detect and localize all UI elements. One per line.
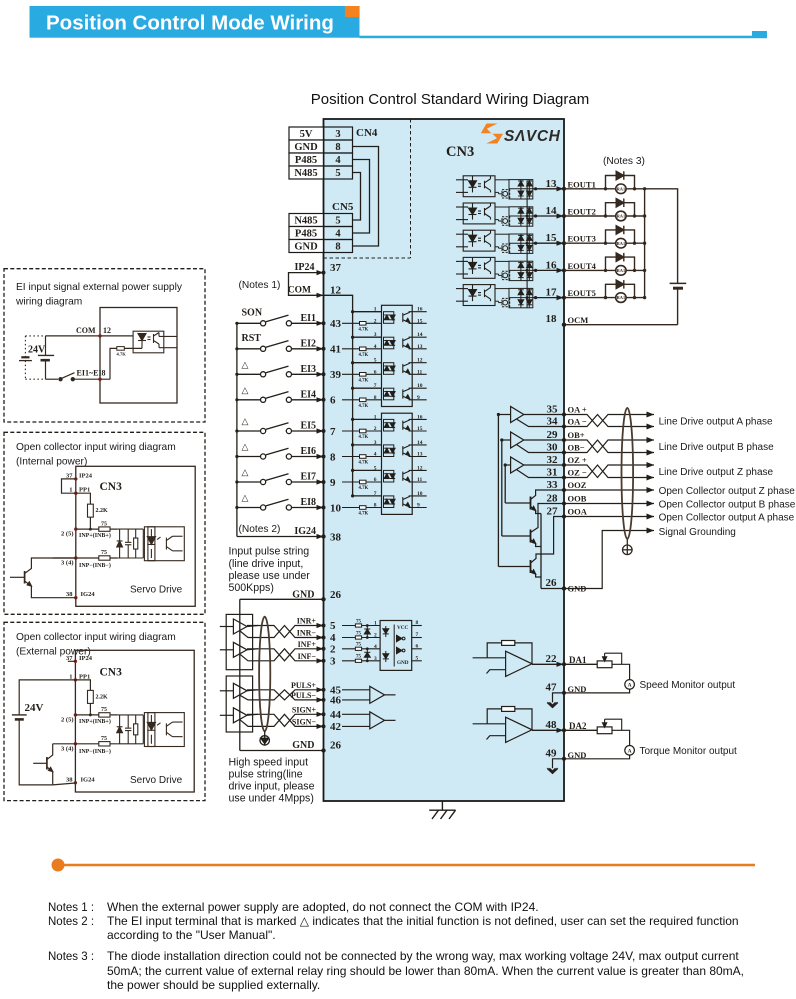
wire EOUT2 output wire — [533, 215, 564, 217]
svg-text:9: 9 — [417, 503, 420, 509]
junction EOUT1 relay left node — [604, 187, 607, 190]
servo drive CN3 block — [324, 119, 565, 801]
svg-text:26: 26 — [330, 740, 342, 752]
wire EI8 opto out bottom — [409, 507, 427, 509]
svg-text:4.7K: 4.7K — [359, 353, 369, 358]
svg-text:3: 3 — [374, 656, 377, 662]
svg-text:5: 5 — [374, 358, 377, 364]
junction EI2 pin dot — [322, 347, 326, 351]
junction GND top pin dot — [321, 597, 325, 601]
wire PULS- internal wire — [342, 699, 370, 701]
svg-text:17: 17 — [546, 287, 558, 299]
svg-text:4.7K: 4.7K — [117, 352, 127, 357]
svg-text:OA −: OA − — [568, 417, 587, 427]
svg-text:DA1: DA1 — [569, 655, 587, 665]
optocoupler LED pair EI5 — [384, 419, 396, 431]
wire EI3 internal wire — [342, 373, 382, 375]
shield ellipse output cable — [622, 408, 634, 539]
svg-text:Position Control Mode Wiring: Position Control Mode Wiring — [46, 12, 334, 35]
optocoupler EOUT4 — [456, 257, 495, 278]
svg-text:11: 11 — [417, 369, 422, 375]
switch EI7 — [261, 474, 292, 485]
arrowhead IP24 arrow — [317, 270, 324, 275]
svg-text:When the external power supply: When the external power supply are adopt… — [107, 900, 539, 914]
resistor 75 (box2 INP-) — [99, 556, 110, 560]
svg-text:OOB: OOB — [568, 494, 587, 504]
svg-text:15: 15 — [546, 232, 558, 244]
junction EI6 bus tap — [351, 443, 354, 446]
wire CN4 pin4 to CN5 pin4 — [353, 160, 370, 234]
junction EOUT1 bus node — [643, 187, 646, 190]
wire open collector wire 33 — [564, 489, 654, 491]
junction EI3 bus tap — [351, 361, 354, 364]
resistor 4.7K EI4 — [360, 398, 367, 402]
svg-text:46: 46 — [330, 694, 342, 706]
svg-text:SIGN−: SIGN− — [292, 717, 317, 726]
resistor 75 INF+ — [355, 647, 361, 650]
svg-text:IP24: IP24 — [295, 262, 315, 273]
svg-text:OCM: OCM — [568, 315, 589, 325]
junction EOUT3 edge dot — [562, 241, 566, 245]
svg-text:2: 2 — [374, 633, 377, 639]
junction pin 29 edge dot — [562, 438, 566, 442]
svg-text:5: 5 — [335, 216, 340, 227]
svg-text:42: 42 — [330, 721, 342, 733]
wire box1 EI riser — [110, 348, 117, 379]
svg-text:4: 4 — [374, 644, 377, 650]
junction pin26 edge dot — [562, 586, 566, 590]
wire GND bottom wire — [240, 750, 324, 752]
line driver U1 (35/34) — [498, 407, 564, 427]
svg-text:13: 13 — [546, 178, 558, 190]
wire EI common bus left — [236, 323, 238, 536]
junction EOUT2 relay right node — [633, 214, 636, 217]
wire EI5 wire switch to pin — [292, 430, 324, 432]
wire EOUT1 mid wire — [509, 188, 533, 190]
arrowhead INR+ arrow — [317, 623, 324, 628]
svg-text:26: 26 — [546, 577, 558, 589]
svg-text:OOA: OOA — [568, 507, 588, 517]
svg-text:27: 27 — [547, 506, 559, 518]
optocoupler phototransistor EI3 — [403, 363, 410, 375]
twisted pair PULS+/PULS- — [247, 690, 324, 700]
svg-text:18: 18 — [546, 313, 558, 325]
junction rail junction 216.0 — [526, 215, 529, 218]
svg-text:P485: P485 — [295, 155, 317, 166]
wire INF+ internal wire — [342, 648, 380, 650]
relay coil RA1 (EOUT5) — [616, 293, 626, 303]
resistor 2.2K (box3) — [88, 690, 94, 703]
svg-text:EI5: EI5 — [300, 421, 316, 432]
wire EI3 opto out bottom — [409, 373, 427, 375]
junction pin 32 edge dot — [562, 463, 566, 467]
wire EI4 opto out top — [409, 387, 427, 389]
op-amp U DA2 — [473, 707, 532, 743]
junction DA1 edge dot — [562, 662, 566, 666]
svg-text:5V: 5V — [300, 129, 313, 140]
svg-text:8: 8 — [416, 620, 419, 626]
resistor 4.7K EI7 — [360, 480, 367, 484]
svg-text:5: 5 — [374, 465, 377, 471]
junction EI8 pin dot — [322, 506, 326, 510]
optocoupler phototransistor EI4 — [403, 388, 410, 400]
arrowhead SIGN+ arrow — [317, 712, 324, 717]
junction EOUT3 bus node — [643, 242, 646, 245]
junction EI7 bus tap — [351, 469, 354, 472]
wire EI2 opto pin-odd wire — [353, 336, 382, 338]
wire EOUT5 mid wire — [509, 297, 533, 299]
svg-text:2: 2 — [330, 643, 336, 655]
svg-text:GND: GND — [294, 142, 318, 153]
svg-text:OZ −: OZ − — [568, 468, 587, 478]
junction box3 edge dot 661.3 — [74, 660, 77, 663]
svg-text:28: 28 — [547, 493, 559, 505]
chassis ground under CN3 — [429, 801, 455, 819]
svg-text:13: 13 — [417, 452, 423, 458]
wire ic stub 8 — [412, 625, 422, 627]
arrowhead EI4 arrow — [317, 397, 324, 402]
svg-text:Open collector input wiring d: Open collector input wiring diagram — [16, 442, 176, 453]
svg-text:INP+(INB+): INP+(INB+) — [79, 718, 111, 725]
header orange square — [345, 6, 360, 17]
svg-text:IP24: IP24 — [79, 655, 93, 662]
line driver U2 (29/30) — [502, 432, 564, 453]
wire box3 INP+ wire — [75, 714, 117, 716]
wire OCM wire — [564, 324, 678, 326]
svg-text:RA1: RA1 — [617, 295, 626, 300]
arrowhead Z phase arrow + — [647, 462, 655, 468]
battery 24V (box3) — [12, 680, 76, 785]
svg-text:8: 8 — [335, 142, 340, 153]
driver block EOUT4 — [495, 261, 510, 279]
svg-text:3: 3 — [335, 129, 340, 140]
wire EI6 opto out bottom — [409, 456, 427, 458]
meter circle DA1 — [625, 680, 635, 690]
junction EI5 bus junction — [235, 429, 238, 432]
wire EI7 wire switch to pin — [292, 481, 324, 483]
resistor 75 (box2 INP+) — [99, 527, 110, 531]
op-amp U DA1 — [473, 641, 532, 677]
wire EI3 wire switch to pin — [292, 373, 324, 375]
arrowhead EOUT2 arrow — [557, 213, 564, 218]
wire DA1 pot to meter — [612, 664, 630, 679]
svg-text:RA1: RA1 — [617, 186, 626, 191]
junction DA2 gnd edge dot — [562, 757, 566, 761]
header underline — [360, 36, 768, 39]
receiver IC internals — [383, 625, 405, 667]
svg-text:△: △ — [242, 359, 249, 369]
wire EI8 wire switch to pin — [292, 507, 324, 509]
svg-text:Line Drive output B phase: Line Drive output B phase — [659, 442, 775, 453]
junction EOUT2 bus node — [643, 214, 646, 217]
junction EI5 pin dot — [322, 429, 326, 433]
svg-text:7: 7 — [330, 426, 336, 438]
wire EI2 opto out bottom — [409, 348, 427, 350]
SAVCH logo emblem — [481, 124, 503, 144]
optocoupler EOUT5 — [456, 285, 495, 306]
svg-text:5: 5 — [416, 655, 419, 661]
wire pin26 internal wire — [541, 588, 564, 590]
wire pulse gnd left bus — [239, 599, 241, 750]
svg-text:Line Drive output A phase: Line Drive output A phase — [659, 417, 773, 428]
svg-text:EI1: EI1 — [300, 313, 316, 324]
junction EOUT3 relay left node — [604, 242, 607, 245]
junction box1 COM edge dot — [98, 334, 101, 337]
transistor Q3 (OOA) — [498, 517, 564, 578]
wire EI5 internal wire — [342, 430, 382, 432]
svg-text:COM: COM — [288, 286, 311, 296]
junction box2 edge dot 493.2 — [74, 492, 77, 495]
wire EI1 internal wire — [342, 322, 382, 324]
svg-text:△: △ — [242, 493, 249, 503]
svg-text:INR−: INR− — [297, 629, 317, 638]
wire DA1 wire to pot — [564, 663, 597, 665]
svg-text:4.7K: 4.7K — [359, 461, 369, 466]
arrowhead IG24 arrow — [317, 534, 324, 539]
svg-text:wiring diagram: wiring diagram — [15, 297, 82, 308]
wire GND top wire — [240, 598, 324, 600]
wire DA2 output wire — [532, 729, 564, 731]
resistor 4.7K EI5 — [360, 429, 367, 433]
dashed frame: Open collector input wiring diagram (External power) — [4, 622, 205, 800]
svg-text:The diode installation directi: The diode installation direction could n… — [107, 949, 739, 963]
svg-text:10: 10 — [330, 502, 342, 514]
twisted pair Z phase — [564, 465, 654, 478]
optocoupler EOUT3 — [456, 230, 495, 251]
svg-text:24V: 24V — [25, 702, 44, 714]
wire CN4 pin8 to CN5 pin8 — [353, 147, 379, 247]
svg-text:9: 9 — [417, 395, 420, 401]
wire EI1 wire switch to pin — [292, 322, 324, 324]
junction INR+ node — [366, 624, 369, 627]
junction box3 edge dot 714.9 — [74, 713, 77, 716]
wire EOUT5 wire to relay bus — [564, 297, 645, 299]
line driver SIGN+/SIGN- — [220, 708, 258, 727]
dashed frame: Open collector input wiring diagram (Internal power) — [4, 432, 205, 614]
svg-text:75: 75 — [356, 619, 362, 624]
transistor Q1 (OOZ) — [505, 490, 564, 514]
svg-text:OB−: OB− — [568, 443, 585, 453]
line driver PULS+/PULS- — [220, 683, 258, 700]
line receiver box upper — [226, 614, 252, 669]
optocoupler LED pair EI4 — [384, 388, 396, 400]
wire ic stub 5 — [412, 660, 422, 662]
junction INF+ pin dot — [322, 647, 326, 651]
wire EOUT4 wire to relay bus — [564, 269, 645, 271]
arrowhead INF- arrow — [317, 658, 324, 663]
junction EI4 bus junction — [235, 398, 238, 401]
svg-text:IG24: IG24 — [294, 526, 316, 537]
wire IP24 to COM jumper bracket — [289, 273, 324, 296]
junction EI7 bus junction — [235, 480, 238, 483]
svg-text:3 (4): 3 (4) — [61, 745, 73, 752]
svg-text:4.7K: 4.7K — [359, 512, 369, 517]
wire EI3 opto out top — [409, 362, 427, 364]
optocoupler (box2) — [144, 527, 184, 561]
arrowhead EI6 arrow — [317, 454, 324, 459]
arrowhead A phase arrow + — [647, 412, 655, 418]
twisted pair B phase — [564, 440, 654, 453]
svg-text:(Notes 3): (Notes 3) — [603, 156, 645, 167]
junction rail junction 270.4 — [526, 269, 529, 272]
svg-text:△: △ — [242, 416, 249, 426]
wire DA1 output wire — [532, 663, 564, 665]
wire open collector wire 27 — [564, 516, 654, 518]
wire box2 2.2K to INP+ — [89, 527, 91, 529]
svg-text:1: 1 — [374, 307, 377, 313]
wire EI1 opto pin-odd wire — [353, 311, 382, 313]
svg-text:14: 14 — [417, 332, 423, 338]
arrowhead EOUT1 arrow — [557, 186, 564, 191]
svg-text:3: 3 — [374, 440, 377, 446]
junction EI1 bus tap — [351, 310, 354, 313]
svg-text:6: 6 — [374, 369, 377, 375]
optocoupler LED pair EI8 — [384, 496, 396, 508]
optocoupler phototransistor EI6 — [403, 445, 410, 457]
junction box2 INP+ node — [89, 528, 92, 531]
svg-text:COM: COM — [76, 326, 96, 335]
junction EOUT4 relay left node — [604, 269, 607, 272]
svg-text:High speed input: High speed input — [229, 756, 309, 768]
junction GND bottom pin dot — [321, 748, 325, 752]
box3 servo drive outline — [75, 650, 194, 792]
twisted pair INR+/INR- — [247, 626, 324, 638]
wire box2 INP+ wire — [76, 528, 118, 530]
svg-text:3 (4): 3 (4) — [61, 560, 73, 567]
svg-text:32: 32 — [547, 454, 559, 466]
svg-text:Notes 1 :: Notes 1 : — [48, 902, 94, 914]
junction EOUT1 relay right node — [633, 187, 636, 190]
junction EI6 pin dot — [322, 455, 326, 459]
wire INF- internal wire — [342, 660, 380, 662]
svg-text:INP−(INB−): INP−(INB−) — [79, 562, 111, 569]
svg-text:15: 15 — [417, 426, 423, 432]
arrowhead open collector arrow 33 — [647, 487, 655, 493]
svg-text:Signal Grounding: Signal Grounding — [659, 527, 736, 538]
junction EOUT5 node — [534, 296, 537, 299]
junction pin 33 edge dot — [562, 488, 566, 492]
arrowhead INR- arrow — [317, 635, 324, 640]
optocoupler phototransistor EI1 — [403, 312, 410, 324]
flyback diode EOUT1 — [606, 171, 635, 189]
svg-text:Speed Monitor output: Speed Monitor output — [640, 680, 736, 691]
svg-text:41: 41 — [330, 344, 341, 356]
svg-text:GND: GND — [292, 589, 314, 600]
wire INR+ internal wire — [342, 625, 380, 627]
resistor 75 (box3 INP-) — [99, 742, 110, 746]
junction EI2 bus tap — [351, 336, 354, 339]
connector CN4 terminal table — [289, 127, 353, 179]
svg-text:34: 34 — [547, 416, 559, 428]
junction box1 EI edge dot — [98, 378, 101, 381]
svg-text:CN3: CN3 — [446, 144, 474, 160]
driver block EOUT2 — [495, 207, 510, 225]
junction EOUT4 bus node — [643, 269, 646, 272]
svg-text:The EI input terminal that is: The EI input terminal that is marked △ i… — [107, 914, 739, 928]
wire EI4 wire switch to pin — [292, 399, 324, 401]
optocoupler LED pair EI7 — [384, 470, 396, 482]
svg-text:CN5: CN5 — [332, 201, 354, 213]
junction DA2 edge dot — [562, 728, 566, 732]
clamp diode INF+ — [364, 649, 370, 661]
line driver U3 (32/31) — [505, 457, 564, 478]
wire EI4 wire bus to switch — [237, 399, 261, 401]
junction EOUT4 edge dot — [562, 268, 566, 272]
resistor 4.7K EI8 — [360, 506, 367, 510]
svg-text:4: 4 — [335, 155, 341, 166]
svg-text:22: 22 — [546, 653, 558, 665]
arrowhead EOUT3 arrow — [557, 241, 564, 246]
junction EI3 pin dot — [322, 372, 326, 376]
wire EOUT3 output wire — [533, 242, 564, 244]
shield ground symbol — [623, 539, 633, 555]
svg-text:INP−(INB−): INP−(INB−) — [79, 748, 111, 755]
junction INF- pin dot — [322, 659, 326, 663]
svg-text:(Notes 2): (Notes 2) — [239, 524, 281, 535]
arrowhead EI3 arrow — [317, 372, 324, 377]
wire IG24 wire — [237, 536, 324, 538]
svg-text:Line Drive output Z phase: Line Drive output Z phase — [659, 467, 774, 478]
svg-text:4.7K: 4.7K — [359, 327, 369, 332]
line driver INF+/INF- — [220, 642, 258, 661]
svg-text:75: 75 — [356, 655, 362, 660]
wire EI1 opto out top — [409, 311, 427, 313]
wire box2 PP1 wire — [76, 493, 91, 527]
svg-text:75: 75 — [356, 643, 362, 648]
svg-text:Torque Monitor output: Torque Monitor output — [640, 746, 738, 757]
arrowhead DA1 arrow — [557, 662, 564, 667]
arrowhead COM arrow — [317, 293, 324, 298]
junction EI2 bus junction — [235, 347, 238, 350]
optocoupler LED pair EI1 — [384, 312, 396, 324]
svg-text:GND: GND — [397, 660, 409, 666]
transistor Q (box3) — [33, 744, 53, 785]
input filter network (box2) — [117, 529, 144, 558]
junction EI7 pin dot — [322, 480, 326, 484]
wire EOUT5 output wire — [533, 297, 564, 299]
svg-text:Open collector input wiring d: Open collector input wiring diagram — [16, 632, 176, 643]
flyback diode EOUT2 — [606, 199, 635, 217]
junction IG24 pin dot — [321, 534, 325, 538]
junction EOUT2 edge dot — [562, 214, 566, 218]
wire EOUT4 output wire — [533, 269, 564, 271]
svg-text:OZ +: OZ + — [568, 455, 587, 465]
wire DA2 wire to pot — [564, 729, 597, 731]
svg-text:8: 8 — [335, 242, 340, 253]
svg-text:Servo Drive: Servo Drive — [130, 775, 183, 786]
svg-text:2: 2 — [374, 426, 377, 432]
optocoupler phototransistor EI7 — [403, 470, 410, 482]
junction EI6 bus junction — [235, 455, 238, 458]
optocoupler phototransistor EI2 — [403, 337, 410, 349]
svg-text:4: 4 — [330, 632, 336, 644]
resistor 4.7K (box1) — [117, 347, 125, 351]
svg-text:Open Collector output A phase: Open Collector output A phase — [659, 513, 795, 524]
arrowhead EOUT5 arrow — [557, 295, 564, 300]
junction EI1 pin dot — [322, 321, 326, 325]
svg-text:4: 4 — [374, 344, 377, 350]
svg-text:N485: N485 — [294, 216, 317, 227]
svg-text:33: 33 — [547, 479, 559, 491]
junction pin 30 edge dot — [562, 451, 566, 455]
svg-text:12: 12 — [417, 465, 423, 471]
svg-text:pulse string(line: pulse string(line — [229, 768, 303, 780]
junction EI5 bus tap — [351, 418, 354, 421]
junction box2 edge dot 558 — [74, 556, 77, 559]
svg-text:Servo Drive: Servo Drive — [130, 584, 183, 595]
junction box2 edge dot 478.9 — [74, 477, 77, 480]
svg-text:SΛVCH: SΛVCH — [504, 128, 561, 145]
